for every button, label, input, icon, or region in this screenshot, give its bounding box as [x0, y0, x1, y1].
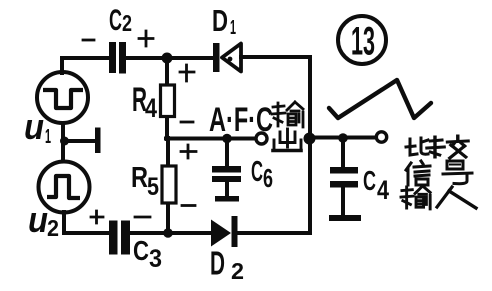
svg-text:4: 4: [377, 175, 389, 205]
svg-text:6: 6: [263, 163, 273, 193]
svg-text:C: C: [251, 156, 263, 188]
svg-text:D: D: [212, 3, 228, 38]
svg-text:A·F·C: A·F·C: [209, 101, 273, 139]
svg-text:2: 2: [122, 10, 132, 36]
svg-text:D: D: [210, 245, 225, 282]
svg-text:4: 4: [145, 93, 157, 123]
svg-text:2: 2: [231, 258, 244, 284]
svg-text:C: C: [133, 235, 149, 266]
svg-text:13: 13: [351, 20, 375, 64]
svg-text:5: 5: [147, 173, 159, 201]
svg-text:1: 1: [45, 126, 51, 148]
svg-text:1: 1: [230, 17, 236, 39]
svg-text:u: u: [24, 106, 44, 147]
svg-text:C: C: [363, 165, 376, 196]
svg-text:3: 3: [149, 245, 162, 273]
svg-text:R: R: [131, 162, 148, 194]
svg-text:u: u: [28, 199, 48, 240]
svg-text:2: 2: [47, 215, 59, 241]
svg-text:C: C: [109, 4, 122, 37]
